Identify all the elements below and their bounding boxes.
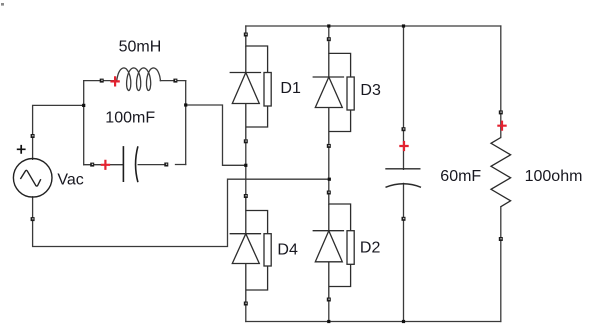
svg-text:D3: D3	[360, 82, 381, 99]
svg-text:100mF: 100mF	[105, 110, 155, 127]
svg-text:60mF: 60mF	[440, 168, 481, 185]
svg-text:50mH: 50mH	[119, 39, 162, 56]
svg-text:D4: D4	[277, 242, 298, 259]
svg-text:D2: D2	[360, 240, 381, 257]
svg-text:D1: D1	[280, 80, 301, 97]
svg-text:Vac: Vac	[57, 172, 83, 189]
svg-text:100ohm: 100ohm	[525, 168, 583, 185]
